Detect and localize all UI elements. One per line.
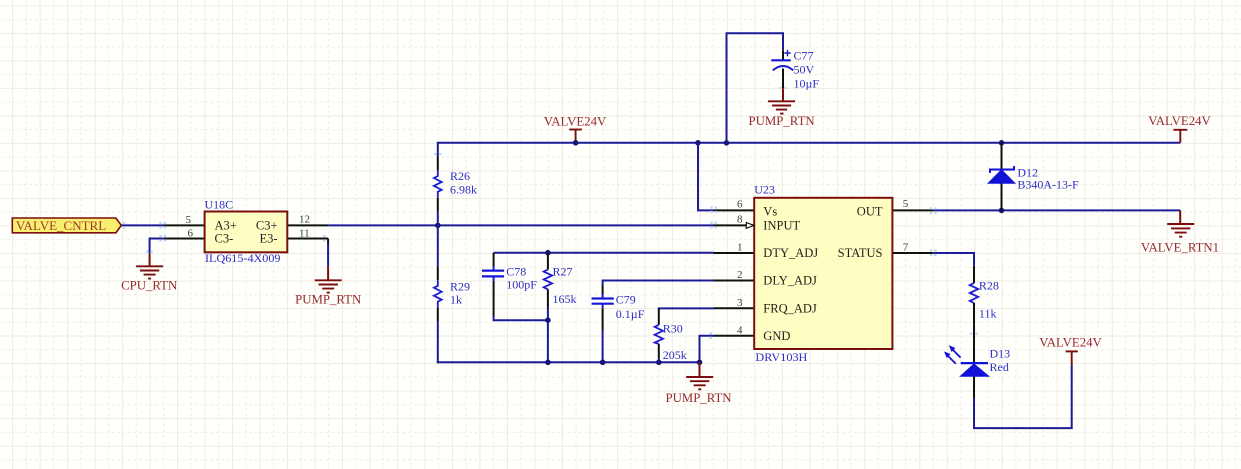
svg-text:R28: R28 [979,279,999,293]
power port VALVE24V (top middle) [544,114,607,142]
svg-text:INPUT: INPUT [763,219,800,233]
svg-text:6.98k: 6.98k [450,182,477,196]
svg-text:C3+: C3+ [256,219,278,233]
svg-text:E3-: E3- [259,232,277,246]
svg-text:CPU_RTN: CPU_RTN [121,279,177,293]
svg-text:PUMP_RTN: PUMP_RTN [665,391,731,405]
svg-text:B340A-13-F: B340A-13-F [1017,178,1079,192]
svg-text:5: 5 [903,198,909,210]
svg-text:PUMP_RTN: PUMP_RTN [295,293,361,307]
wire: U18C pin 11 down to PUMP_RTN [327,239,329,245]
svg-text:12: 12 [299,214,310,226]
svg-text:ILQ615-4X009: ILQ615-4X009 [205,251,281,265]
svg-text:U18C: U18C [205,197,234,211]
ground VALVE_RTN1 [1141,210,1219,254]
wire: port VALVE_CNTRL to U18C pin 5 [121,224,164,226]
svg-text:6: 6 [188,228,194,240]
svg-text:Red: Red [990,360,1009,374]
junction GND net at bottom bus [697,360,703,366]
capacitor C78 [482,253,537,316]
svg-text:4: 4 [737,324,743,336]
svg-text:100pF: 100pF [506,277,537,291]
wire: R27 bottom to bottom bus [547,308,549,363]
svg-text:R30: R30 [663,321,683,335]
wire: bus down to U23 Vs pin [698,143,714,211]
svg-text:165k: 165k [553,292,577,306]
svg-text:FRQ_ADJ: FRQ_ADJ [763,301,817,315]
svg-text:D13: D13 [990,346,1011,360]
power port VALVE24V (bottom right) [1039,336,1102,365]
svg-text:VALVE_CNTRL: VALVE_CNTRL [16,218,106,233]
wire: bottom bus to PUMP_RTN [437,361,700,363]
svg-text:A3+: A3+ [215,219,237,233]
wire: vertical bus mid segment [437,212,439,267]
svg-text:5: 5 [186,214,192,226]
wire: GND net (pin 4 to bottom bus) [700,336,714,363]
wire: D13 to bottom VALVE24V [974,365,1072,428]
junction DTY net at R27 [545,250,551,256]
junction OUT net at D12 [999,208,1005,214]
svg-text:DLY_ADJ: DLY_ADJ [763,274,817,288]
junction at VALVE24V stem [573,140,579,146]
svg-text:DRV103H: DRV103H [755,350,807,364]
wire: R30 bottom to bottom bus [658,358,660,362]
capacitor C77 [771,48,819,90]
power port VALVE24V (top right) [1148,114,1211,143]
svg-text:2: 2 [737,269,743,281]
svg-text:1: 1 [737,242,743,254]
wire: U18C pin 6 to CPU_RTN [150,239,164,254]
ground PUMP_RTN (under C77) [749,88,815,128]
port VALVE_CNTRL [12,218,121,233]
junction top bus at D12 [999,140,1005,146]
ground PUMP_RTN (bottom middle) [665,362,731,405]
node marker: port tip [123,87,978,339]
svg-text:U23: U23 [754,183,775,197]
wire: FRQ_ADJ net (R30 to pin 3) [659,308,714,310]
wire: C77 loop [727,33,784,143]
resistor R26 [434,157,477,212]
svg-text:6: 6 [737,198,743,210]
wire: DLY_ADJ net (C79 to pin 2) [603,281,714,286]
junction C79 at bottom bus [600,360,606,366]
svg-text:PUMP_RTN: PUMP_RTN [749,114,815,128]
wire: left vertical bus top segment [437,142,439,157]
ground CPU_RTN [121,254,177,293]
svg-text:11k: 11k [979,307,997,321]
junction R30 at bottom bus [656,360,662,366]
junction top bus to C77 branch [724,140,730,146]
LED D13 [944,325,1010,398]
wire: STATUS net to R28 [933,253,974,266]
svg-text:STATUS: STATUS [838,246,883,260]
wire: vertical bus bottom segment [437,321,439,363]
svg-text:C77: C77 [794,48,814,62]
junction on INPUT net at vertical bus [435,223,441,229]
junction R27/C78 node [545,317,551,323]
svg-text:C79: C79 [616,292,636,306]
junction top bus to Vs branch [695,140,701,146]
svg-text:VALVE24V: VALVE24V [544,114,607,128]
svg-text:VALVE24V: VALVE24V [1148,114,1211,128]
wire: C79 bottom to bottom bus [602,330,604,362]
svg-text:205k: 205k [663,348,687,362]
diode D12 [988,143,1079,211]
junction R27 at bottom bus [545,360,551,366]
capacitor C79 [592,285,645,330]
svg-text:R27: R27 [553,265,573,279]
svg-text:50V: 50V [794,62,815,76]
svg-text:R26: R26 [450,169,470,183]
resistor R29 [434,266,470,321]
wire: top VALVE24V bus [438,142,1181,144]
svg-text:VALVE_RTN1: VALVE_RTN1 [1141,241,1219,255]
svg-text:3: 3 [737,297,743,309]
svg-text:10µF: 10µF [794,77,820,91]
svg-text:8: 8 [737,214,743,226]
resistor R28 [970,266,999,325]
svg-text:7: 7 [903,241,909,253]
resistor R30 [655,308,687,362]
svg-text:C3-: C3- [215,232,234,246]
svg-text:Vs: Vs [763,205,777,219]
optocoupler U18C [164,197,328,264]
wire: U18C pin 12 to U23 pin 8 (INPUT net) [328,224,713,226]
svg-text:VALVE24V: VALVE24V [1039,336,1102,350]
svg-text:0.1µF: 0.1µF [616,307,645,321]
resistor R27 [544,253,577,308]
wire: C78 bottom to R27 bottom [494,316,548,320]
svg-text:11: 11 [299,227,310,239]
svg-text:DTY_ADJ: DTY_ADJ [763,246,818,260]
svg-text:R29: R29 [450,279,470,293]
IC U23 DRV103H [714,183,934,364]
wire: DTY_ADJ net (C78/R27 to pin 1) [494,252,714,254]
svg-text:OUT: OUT [857,205,883,219]
svg-text:1k: 1k [450,293,462,307]
svg-text:GND: GND [763,329,790,343]
ground PUMP_RTN (left) [295,267,361,307]
wire: OUT net to VALVE_RTN1 [933,209,1180,211]
